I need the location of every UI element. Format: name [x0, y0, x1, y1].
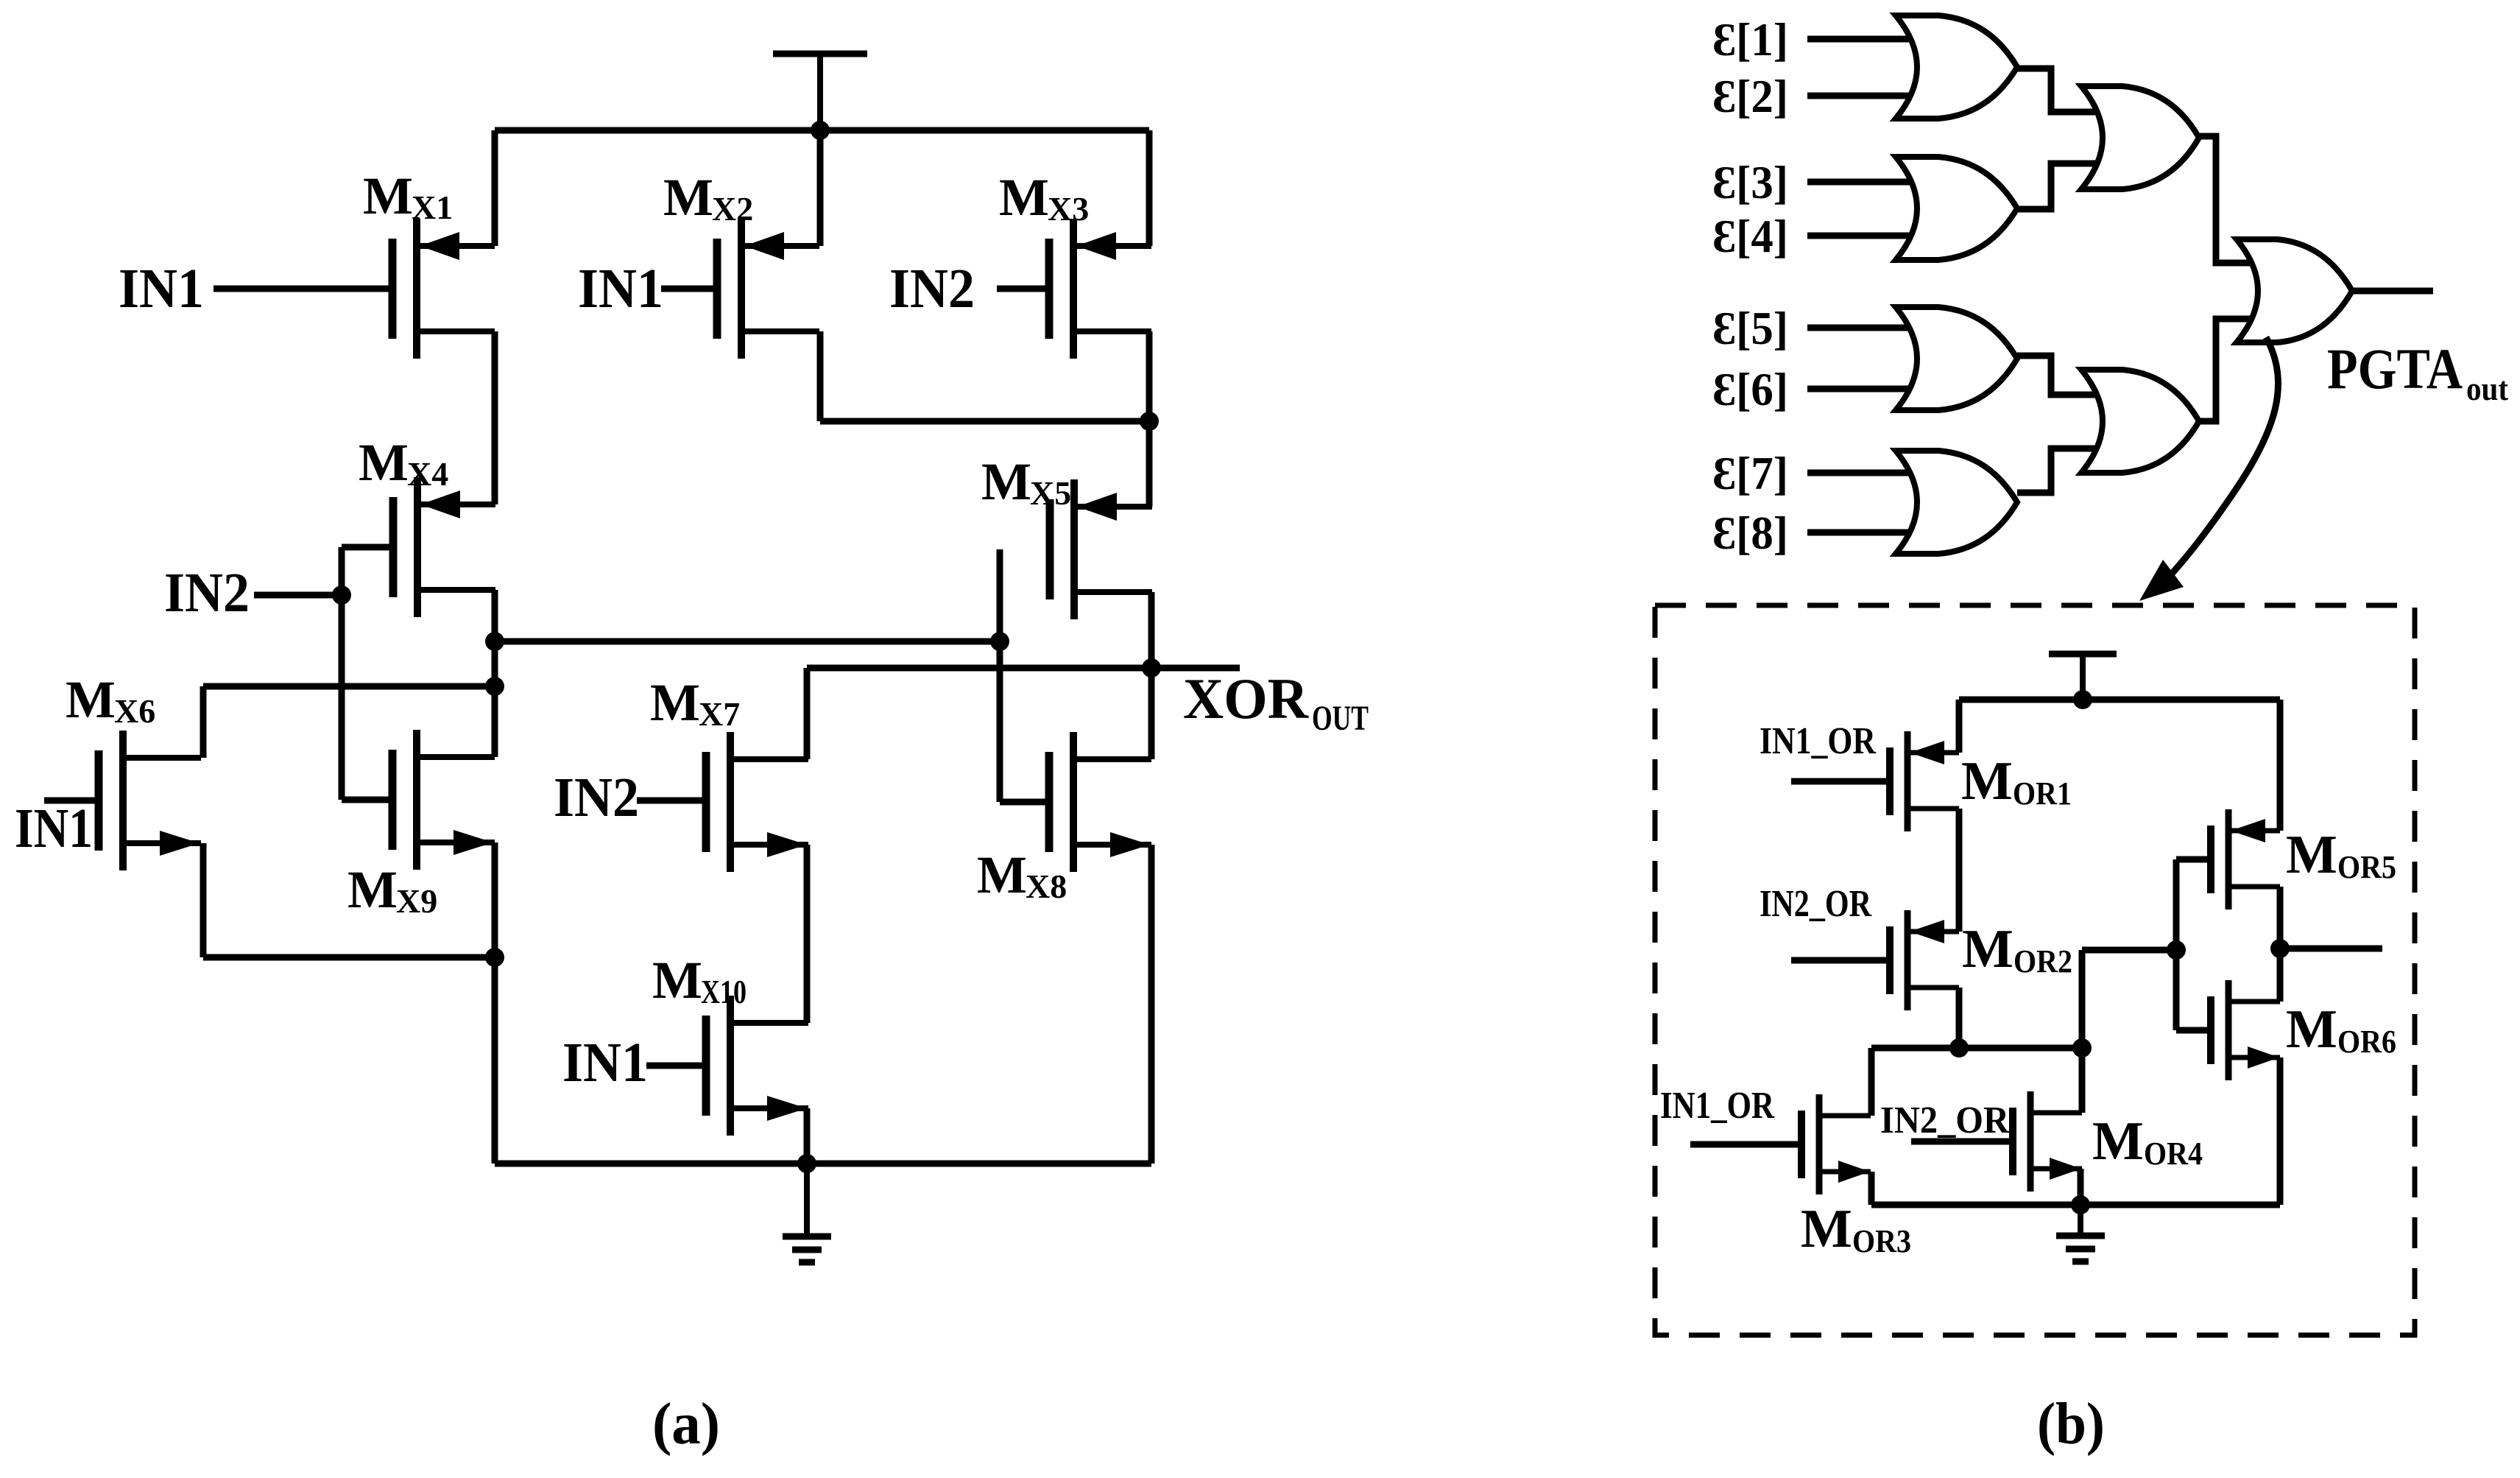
svg-text:M: M: [652, 951, 702, 1010]
svg-text:Ɛ[5]: Ɛ[5]: [1712, 302, 1788, 354]
svg-text:IN1: IN1: [578, 258, 663, 320]
svg-text:X2: X2: [712, 190, 753, 228]
svg-text:X1: X1: [412, 189, 453, 226]
svg-text:M: M: [2286, 825, 2337, 885]
svg-text:M: M: [363, 166, 413, 225]
svg-text:X8: X8: [1026, 868, 1067, 905]
svg-text:IN2: IN2: [554, 767, 639, 828]
svg-text:(b): (b): [2037, 1392, 2105, 1457]
svg-text:M: M: [650, 673, 700, 732]
svg-text:IN1: IN1: [119, 258, 204, 320]
svg-text:M: M: [981, 452, 1031, 511]
svg-text:OR3: OR3: [1852, 1223, 1911, 1259]
svg-text:M: M: [1962, 919, 2013, 979]
svg-text:Ɛ[4]: Ɛ[4]: [1712, 210, 1788, 262]
svg-text:out: out: [2466, 370, 2509, 407]
svg-text:IN1: IN1: [562, 1032, 648, 1094]
svg-text:(a): (a): [652, 1392, 720, 1457]
svg-text:Ɛ[6]: Ɛ[6]: [1712, 363, 1788, 415]
svg-text:M: M: [2092, 1111, 2144, 1172]
svg-text:IN1: IN1: [15, 798, 93, 859]
svg-text:IN2_OR: IN2_OR: [1760, 883, 1872, 925]
svg-text:M: M: [1961, 751, 2013, 812]
svg-text:X9: X9: [396, 882, 437, 920]
svg-text:IN2: IN2: [889, 258, 975, 320]
svg-text:OUT: OUT: [1312, 699, 1369, 738]
svg-text:OR4: OR4: [2144, 1136, 2203, 1172]
svg-text:M: M: [663, 168, 713, 227]
svg-text:X5: X5: [1030, 474, 1071, 512]
svg-text:X10: X10: [701, 973, 747, 1010]
svg-text:Ɛ[2]: Ɛ[2]: [1712, 70, 1788, 122]
svg-text:PGTA: PGTA: [2327, 337, 2463, 401]
svg-text:Ɛ[8]: Ɛ[8]: [1712, 507, 1788, 559]
svg-text:OR1: OR1: [2013, 775, 2072, 812]
svg-text:IN1_OR: IN1_OR: [1760, 720, 1877, 762]
svg-text:OR6: OR6: [2337, 1024, 2396, 1060]
svg-text:Ɛ[3]: Ɛ[3]: [1712, 156, 1788, 208]
svg-text:M: M: [1801, 1199, 1852, 1259]
svg-text:X4: X4: [407, 455, 448, 493]
svg-text:Ɛ[7]: Ɛ[7]: [1712, 447, 1788, 499]
svg-text:OR2: OR2: [2013, 943, 2072, 979]
svg-text:M: M: [2286, 999, 2337, 1060]
svg-text:X6: X6: [114, 692, 155, 730]
svg-text:X3: X3: [1048, 190, 1089, 228]
svg-text:M: M: [999, 168, 1049, 227]
svg-text:Ɛ[1]: Ɛ[1]: [1712, 13, 1788, 66]
svg-text:M: M: [977, 845, 1027, 904]
svg-text:M: M: [347, 860, 398, 919]
svg-text:XOR: XOR: [1183, 666, 1310, 731]
svg-text:M: M: [359, 433, 409, 492]
svg-text:IN1_OR: IN1_OR: [1660, 1085, 1775, 1127]
svg-text:IN2_OR: IN2_OR: [1880, 1099, 2010, 1141]
svg-text:M: M: [66, 670, 116, 729]
svg-text:OR5: OR5: [2337, 849, 2396, 885]
svg-text:IN2: IN2: [164, 562, 250, 624]
svg-text:X7: X7: [699, 695, 740, 733]
